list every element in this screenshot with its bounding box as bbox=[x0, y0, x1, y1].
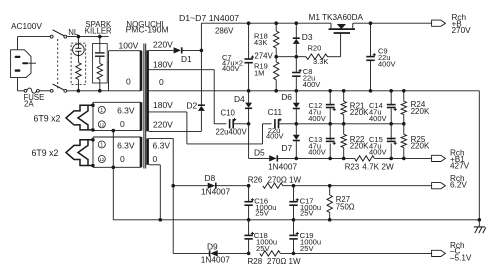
junction C7 top bbox=[247, 21, 251, 25]
neon lamp NL box bbox=[71, 43, 86, 84]
output connector Rch +B 270V bbox=[432, 20, 446, 26]
svg-text:D6: D6 bbox=[281, 92, 292, 102]
svg-text:220K: 220K bbox=[411, 142, 430, 151]
D5 label bbox=[254, 148, 265, 158]
D9 label bbox=[207, 242, 218, 252]
D1~D7 1N4007 label bbox=[179, 13, 239, 23]
Rch +B 270V label bbox=[452, 13, 472, 35]
wire fuse to switch bbox=[39, 90, 50, 92]
svg-text:1M: 1M bbox=[254, 68, 264, 77]
junction C17 bottom bbox=[292, 218, 296, 222]
output connector Rch 6.2V bbox=[432, 183, 446, 189]
primary 0 label bbox=[126, 77, 131, 87]
svg-text:6.3V: 6.3V bbox=[117, 106, 135, 116]
svg-text:6T9 x2: 6T9 x2 bbox=[34, 114, 61, 124]
wire D2 cathode bbox=[200, 50, 202, 104]
pin 12 (upper box) bbox=[98, 121, 105, 128]
wire 6.3V 0 tap bbox=[149, 165, 161, 220]
svg-text:270Ω 1W: 270Ω 1W bbox=[268, 175, 302, 184]
svg-text:1N4007: 1N4007 bbox=[201, 254, 230, 264]
0 label (secondary 6.3V) bbox=[153, 154, 158, 164]
6.3V label (secondary) bbox=[153, 140, 171, 150]
Rch -C -5.1V label bbox=[450, 241, 472, 263]
MOSFET M1 bbox=[329, 23, 355, 33]
svg-text:400V: 400V bbox=[308, 148, 326, 157]
junction D5 D7 B1 row bbox=[295, 157, 299, 161]
svg-text:D9: D9 bbox=[207, 242, 218, 252]
resistor in NL bbox=[76, 56, 81, 91]
svg-text:6.2V: 6.2V bbox=[450, 181, 467, 190]
junction C9 top bbox=[369, 21, 373, 25]
svg-text:6T9 x2: 6T9 x2 bbox=[32, 148, 59, 158]
diode D8 1N4007 bbox=[173, 183, 248, 197]
svg-text:22u400V: 22u400V bbox=[216, 128, 248, 137]
capacitor C10 22u400V bbox=[216, 118, 249, 137]
svg-text:1N4007: 1N4007 bbox=[201, 187, 230, 197]
6T9 x2 label (upper) bbox=[34, 114, 61, 124]
capacitor C16 1000u 25V bbox=[244, 186, 276, 220]
6.3V label (lower heater) bbox=[117, 140, 135, 150]
6T9 x2 label (lower) bbox=[32, 148, 59, 158]
junction C13 bottom bbox=[328, 157, 332, 161]
diode D4 bbox=[245, 91, 252, 124]
capacitor C9 22u 400V bbox=[366, 23, 395, 91]
FUSE 2A label bbox=[24, 93, 45, 108]
svg-text:270V: 270V bbox=[452, 26, 472, 35]
junction C12 top bbox=[328, 89, 332, 93]
wire plug top lead bbox=[18, 37, 51, 50]
svg-text:270Ω 1W: 270Ω 1W bbox=[267, 257, 301, 266]
svg-text:220V: 220V bbox=[153, 40, 173, 50]
svg-text:D1: D1 bbox=[181, 54, 192, 64]
capacitor in spark killer bbox=[95, 37, 105, 64]
wire gate lead bbox=[340, 34, 342, 57]
pin 1 (lower box) bbox=[98, 141, 105, 149]
svg-text:43K: 43K bbox=[254, 38, 267, 47]
junction R24 bottom bbox=[402, 122, 406, 126]
wire ground rail bbox=[113, 218, 479, 222]
capacitor C7 47ux2 400V bbox=[222, 23, 254, 91]
svg-text:220K: 220K bbox=[350, 142, 369, 151]
junction NL top bbox=[77, 35, 81, 39]
secondary winding bar 6.3V bbox=[146, 138, 149, 164]
wire B+ rail right bbox=[353, 22, 432, 24]
resistor in spark killer bbox=[97, 64, 102, 91]
svg-text:C11: C11 bbox=[268, 108, 283, 117]
wire 0V rail drop right bbox=[478, 91, 480, 220]
svg-text:180V: 180V bbox=[153, 59, 173, 69]
resistor R19 1M bbox=[254, 57, 279, 91]
wire B+ rail left bbox=[201, 22, 331, 24]
resistor R20 3.3K bbox=[296, 44, 340, 66]
D7 label bbox=[282, 143, 293, 153]
wire B1 row left bbox=[296, 157, 354, 159]
resistor R24 220K bbox=[401, 91, 430, 124]
junction SK top bbox=[98, 35, 102, 39]
heater box 1 outline bbox=[93, 102, 141, 130]
capacitor C17 1000u 25V bbox=[289, 186, 321, 220]
junction C16 top bbox=[247, 184, 251, 188]
resistor R25 220K bbox=[401, 124, 430, 159]
junction C16 bottom bbox=[247, 218, 251, 222]
heater winding bar 1 bbox=[140, 102, 143, 130]
capacitor C12 47u 400V bbox=[308, 91, 336, 124]
svg-text:D3: D3 bbox=[302, 32, 313, 42]
svg-text:4.7K 2W: 4.7K 2W bbox=[362, 163, 394, 172]
svg-text:25V: 25V bbox=[300, 209, 314, 218]
diode D5 1N4007 bbox=[249, 155, 298, 171]
svg-text:D8: D8 bbox=[205, 173, 216, 183]
svg-text:C10: C10 bbox=[221, 109, 236, 118]
Rch 6.2V label bbox=[450, 174, 467, 190]
220V label (top tap) bbox=[153, 40, 173, 50]
fuse F1 2A bbox=[24, 88, 39, 93]
junction C19 bottom bbox=[292, 252, 296, 256]
heater filament symbol (upper) bbox=[66, 103, 95, 131]
switch SW1a bbox=[50, 30, 66, 38]
junction node P bbox=[247, 122, 251, 126]
capacitor C15 47u 400V bbox=[369, 124, 397, 159]
junction 6.3V D8 branch bbox=[171, 184, 175, 188]
resistor R23 4.7K 2W bbox=[345, 156, 394, 172]
ground symbol bbox=[474, 220, 486, 233]
resistor R21 220K bbox=[341, 91, 369, 124]
Rch +B1 427V label bbox=[450, 148, 470, 170]
svg-text:D5: D5 bbox=[254, 148, 265, 158]
junction C14 top bbox=[389, 89, 393, 93]
svg-text:D1~D7 1N4007: D1~D7 1N4007 bbox=[179, 13, 239, 23]
junction R21 top bbox=[342, 89, 346, 93]
heater winding bar 2 bbox=[140, 137, 143, 167]
svg-text:0: 0 bbox=[120, 154, 125, 164]
C10 label bbox=[221, 109, 236, 118]
6.3V label (upper heater) bbox=[117, 106, 135, 116]
capacitor C19 1000u 25V bbox=[289, 220, 321, 254]
AC plug P1 bbox=[11, 50, 36, 78]
svg-text:750Ω: 750Ω bbox=[336, 202, 355, 211]
resistor R27 750ohm bbox=[327, 186, 355, 220]
svg-text:100V: 100V bbox=[119, 41, 139, 51]
wire node P to D5 bbox=[248, 124, 250, 159]
svg-text:M1 TK3A60DA: M1 TK3A60DA bbox=[309, 13, 364, 22]
wire node up to B+ rail bbox=[200, 23, 202, 50]
resistor R18 43K bbox=[254, 23, 279, 57]
junction R18 top bbox=[274, 21, 278, 25]
0 label (lower heater) bbox=[120, 154, 125, 164]
svg-text:D7: D7 bbox=[282, 143, 293, 153]
svg-text:220K: 220K bbox=[411, 107, 430, 116]
transformer core bbox=[144, 44, 146, 169]
svg-text:1: 1 bbox=[100, 108, 103, 114]
wire AC bottom line bbox=[67, 90, 141, 92]
svg-text:6.3V: 6.3V bbox=[117, 140, 135, 150]
wire plug bottom lead bbox=[18, 78, 25, 91]
spark killer box bbox=[93, 44, 108, 84]
wire 274V node row bbox=[276, 56, 296, 58]
D8 label bbox=[205, 173, 216, 183]
junction C9 bottom bbox=[369, 89, 373, 93]
wire heater ground drop bbox=[112, 129, 116, 220]
wire switch to transformer top bbox=[67, 36, 109, 38]
MOSFET M1 TK3A60DA label bbox=[309, 13, 364, 22]
capacitor C8 22u 400V bbox=[292, 57, 320, 91]
svg-text:D2: D2 bbox=[187, 101, 198, 111]
transformer label NOGUCHI PMC-190M bbox=[126, 20, 169, 35]
junction R24 top bbox=[402, 89, 406, 93]
svg-text:D4: D4 bbox=[234, 94, 245, 104]
resistor R28 270ohm 1W bbox=[248, 251, 302, 266]
capacitor C14 47u 400V bbox=[369, 91, 397, 124]
180V label (lower) bbox=[153, 100, 173, 110]
AC100V label bbox=[11, 21, 42, 31]
junction C14 bottom bbox=[389, 122, 393, 126]
svg-text:6.3V: 6.3V bbox=[153, 140, 171, 150]
D6 label bbox=[281, 92, 292, 102]
primary winding bar bbox=[140, 51, 143, 91]
switch link dashed bbox=[57, 39, 59, 89]
svg-text:0: 0 bbox=[153, 154, 158, 164]
pin 1 (upper box) bbox=[98, 106, 105, 114]
secondary winding bar HV bbox=[146, 50, 149, 131]
svg-text:1: 1 bbox=[100, 143, 103, 149]
svg-text:3.3K: 3.3K bbox=[313, 57, 328, 66]
wire 6.2V row bbox=[283, 184, 432, 188]
0 label (upper heater) bbox=[120, 119, 125, 129]
output connector Rch +B1 427V bbox=[432, 155, 446, 161]
diode D6 bbox=[293, 91, 300, 124]
junction R21 bottom bbox=[342, 122, 346, 126]
svg-text:R20: R20 bbox=[308, 44, 322, 53]
wire B1 row right bbox=[374, 157, 431, 159]
svg-text:400V: 400V bbox=[308, 114, 326, 123]
svg-text:–5.1V: –5.1V bbox=[450, 254, 472, 263]
capacitor C13 47u 400V bbox=[308, 124, 336, 159]
svg-text:220K: 220K bbox=[350, 108, 369, 117]
NL label bbox=[68, 28, 79, 37]
node 274V label bbox=[254, 51, 273, 60]
svg-text:25V: 25V bbox=[300, 244, 314, 253]
junction NL bottom bbox=[77, 89, 81, 93]
svg-text:12: 12 bbox=[99, 157, 104, 162]
svg-text:25V: 25V bbox=[256, 244, 270, 253]
svg-text:400V: 400V bbox=[222, 64, 240, 73]
junction D6 D7 C11 bbox=[295, 122, 299, 126]
resistor R22 220K bbox=[341, 124, 369, 159]
svg-text:400V: 400V bbox=[369, 114, 387, 123]
svg-text:R26: R26 bbox=[248, 175, 263, 184]
junction C7 bottom rail0 bbox=[247, 89, 251, 93]
svg-text:1N4007: 1N4007 bbox=[268, 161, 297, 171]
capacitor C18 1000u 25V bbox=[244, 220, 277, 254]
svg-text:400V: 400V bbox=[378, 60, 396, 69]
diode D9 1N4007 bbox=[173, 250, 248, 264]
junction R22 bottom bbox=[342, 157, 346, 161]
diode D3 bbox=[293, 23, 313, 57]
svg-text:25V: 25V bbox=[255, 209, 269, 218]
svg-text:R28: R28 bbox=[248, 257, 263, 266]
diode D2 1N4007 bbox=[187, 101, 205, 111]
svg-text:0: 0 bbox=[120, 119, 125, 129]
junction C15 bottom bbox=[389, 157, 393, 161]
100V label bbox=[119, 41, 139, 51]
wire doubler mid row bbox=[296, 123, 404, 125]
heater filament symbol (lower) bbox=[66, 138, 95, 167]
junction C18 bottom bbox=[247, 252, 251, 256]
svg-text:R23: R23 bbox=[345, 163, 360, 172]
svg-text:KILLER: KILLER bbox=[85, 26, 112, 35]
diode D7 bbox=[293, 124, 300, 159]
D4 label bbox=[234, 94, 245, 104]
svg-text:220V: 220V bbox=[153, 119, 173, 129]
output connector Rch -C -5.1V bbox=[432, 250, 446, 256]
svg-text:274V: 274V bbox=[254, 51, 273, 60]
svg-text:427V: 427V bbox=[450, 162, 470, 171]
svg-text:12: 12 bbox=[99, 122, 104, 127]
svg-text:286V: 286V bbox=[215, 26, 234, 35]
wire 180V upper tap bbox=[149, 70, 227, 124]
switch SW1b bbox=[50, 84, 66, 92]
heater box 2 outline bbox=[93, 137, 141, 167]
junction SK bottom bbox=[98, 89, 102, 93]
svg-text:400V: 400V bbox=[369, 148, 387, 157]
svg-text:0: 0 bbox=[126, 77, 131, 87]
286V node label bbox=[215, 26, 234, 35]
C11 label bbox=[268, 108, 283, 117]
capacitor C11 22u 400V bbox=[266, 118, 296, 140]
wire -5.1V row bbox=[280, 252, 431, 254]
wire D1 to node bbox=[181, 49, 203, 53]
svg-text:180V: 180V bbox=[153, 100, 173, 110]
junction C8 bottom bbox=[295, 89, 299, 93]
junction R18 R19 bbox=[274, 55, 278, 59]
diode D1 1N4007 bbox=[174, 47, 192, 64]
svg-text:AC100V: AC100V bbox=[11, 21, 42, 31]
220V label (bottom tap) bbox=[153, 119, 173, 129]
junction R25 bottom bbox=[402, 157, 406, 161]
junction ground bbox=[478, 218, 482, 222]
0V label (secondary) bbox=[159, 77, 164, 87]
wire 6.3V tap bbox=[149, 138, 174, 253]
wire 0V rail bbox=[149, 90, 480, 92]
svg-text:400V: 400V bbox=[266, 132, 284, 141]
180V label (upper) bbox=[153, 59, 173, 69]
svg-text:PMC-190M: PMC-190M bbox=[126, 24, 169, 34]
pin 12 (lower box) bbox=[98, 156, 105, 163]
neon lamp NL bbox=[73, 37, 85, 56]
SPARK KILLER label bbox=[85, 20, 112, 35]
junction R19 bottom bbox=[274, 89, 278, 93]
wire 220V bottom tap bbox=[149, 111, 202, 131]
junction R27 bottom bbox=[328, 218, 332, 222]
wire 180V lower tap bbox=[149, 112, 272, 144]
wire 220V top tap bbox=[149, 49, 174, 51]
primary box 100V bbox=[109, 51, 142, 91]
svg-text:2A: 2A bbox=[24, 100, 34, 109]
svg-text:400V: 400V bbox=[303, 80, 321, 89]
junction D3 C8 R20 bbox=[295, 55, 299, 59]
junction C12 bottom bbox=[328, 122, 332, 126]
resistor R26 270ohm 1W bbox=[248, 175, 302, 188]
junction D3 top bbox=[295, 21, 299, 25]
svg-text:0: 0 bbox=[159, 77, 164, 87]
